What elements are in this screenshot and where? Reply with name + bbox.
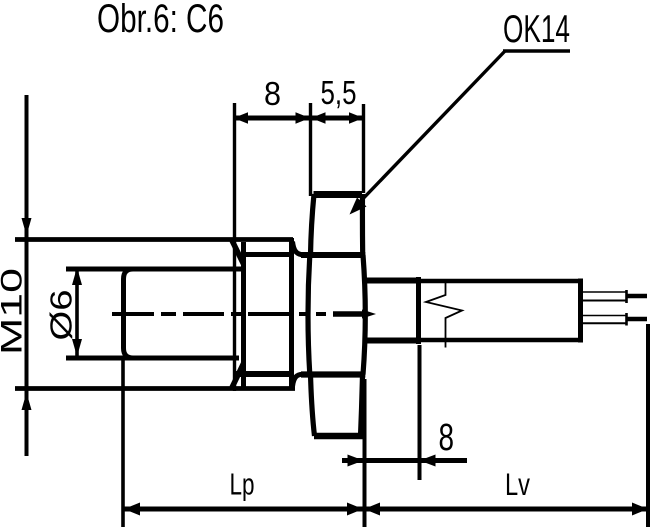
wire 1 end cap: [625, 290, 628, 303]
hex internal line top: [301, 252, 365, 258]
thread core bottom line (Ø6 extension): [66, 356, 239, 361]
dimension 8 (bottom right): [342, 345, 467, 480]
thread core top line (Ø6 extension): [66, 267, 241, 272]
svg-text:Lp: Lp: [230, 467, 255, 502]
dimensions Lp and Lv: [123, 324, 648, 527]
hex top band left edge: [311, 194, 315, 255]
wire 2 bottom line: [583, 322, 626, 324]
thread major OD line top (M10 extension): [15, 237, 293, 242]
wire 1 bottom line: [583, 300, 626, 302]
collar bottom inner chamfer line: [236, 371, 292, 377]
arrow 8b left (outside, points right): [348, 455, 364, 467]
svg-text:8: 8: [264, 75, 281, 112]
extension line right (hex right face): [362, 104, 365, 193]
hex top band right edge: [360, 194, 365, 255]
Ø6 arrow bottom (points down): [72, 339, 82, 357]
arrow Lv left (points left): [364, 503, 380, 516]
extension line thread left end: [121, 357, 125, 527]
arrow Lp right (points right): [347, 503, 363, 516]
dimension Ø6: [75, 270, 79, 356]
centerline arrowhead: [362, 310, 376, 319]
wire 2 bare stub: [627, 317, 647, 322]
break zigzag: [426, 279, 462, 348]
M10 arrow top (points down): [22, 218, 32, 236]
case bottom edge: [421, 338, 583, 342]
M10 dimension line: [25, 95, 29, 456]
dimension line 8 / 5,5: [234, 116, 365, 121]
OK14 leader arrowhead: [350, 198, 367, 215]
svg-text:Obr.6: C6: Obr.6: C6: [97, 0, 224, 41]
cylinder bottom edge: [364, 338, 421, 344]
wire 1 bare stub: [627, 294, 647, 299]
dimension line Lp Lv: [124, 507, 648, 512]
svg-text:Lv: Lv: [505, 466, 530, 502]
M10 arrow bottom (points up): [22, 393, 32, 411]
wire 1 top line: [583, 291, 626, 293]
leader OK14: [356, 51, 570, 206]
thread left end cap: [124, 269, 134, 358]
hex middle band right edge: [363, 255, 365, 375]
collar left edge: [241, 242, 246, 387]
centerline (axis): [112, 312, 364, 316]
hex internal line bottom: [301, 371, 365, 377]
collar right edge: [289, 238, 294, 390]
arrow Lp left (points left): [124, 503, 140, 516]
cylinder top edge: [364, 278, 421, 284]
svg-text:OK14: OK14: [503, 8, 570, 51]
dimension M10: [25, 95, 29, 456]
dimension line 8 bottom: [342, 458, 467, 463]
extension line middle (hex left face): [309, 103, 312, 196]
thread runout wedge top: [232, 241, 244, 265]
hex bottom band right edge: [361, 375, 363, 437]
wire 2 top line: [583, 315, 626, 317]
svg-text:Ø6: Ø6: [44, 290, 79, 341]
arrow Lv right (points right): [632, 503, 648, 516]
case top edge: [421, 279, 583, 283]
hex middle band left edge: [308, 255, 310, 375]
wire 2 end cap: [625, 313, 628, 326]
svg-text:M10: M10: [0, 268, 29, 355]
collar top inner chamfer line: [244, 252, 292, 257]
dimension 8 (top) and 5,5: [234, 103, 365, 391]
svg-text:5,5: 5,5: [321, 74, 357, 111]
Ø6 arrow top (points up): [72, 268, 82, 286]
neck curve top: [293, 242, 312, 255]
thread runout wedge bottom: [232, 364, 244, 388]
hex bottom edge: [314, 433, 365, 440]
arrow 8b right (outside, points left): [420, 455, 436, 467]
OK14 underline: [503, 49, 570, 52]
neck curve bottom: [293, 374, 312, 386]
hex bottom band left edge: [311, 375, 315, 437]
extension line wire end (Lv right): [646, 324, 650, 527]
svg-text:8: 8: [439, 417, 455, 459]
cylinder right edge: [416, 277, 421, 344]
arrow 5,5 left (points left): [311, 112, 326, 124]
Ø6 dimension line: [75, 270, 79, 356]
arrow 8 left (points left): [234, 112, 249, 124]
thread major OD line bottom (M10 extension): [15, 386, 295, 391]
extension line left (thread end): [233, 103, 236, 391]
arrow 8 right (points right at hex face): [296, 112, 311, 124]
OK14 leader line: [356, 51, 505, 206]
case right edge: [578, 279, 583, 343]
arrow 5,5 right (points right): [349, 112, 364, 124]
hex top edge: [314, 191, 363, 198]
extension line (cylinder right end): [418, 345, 422, 480]
extension line hex right face (shared Lp/Lv): [363, 379, 367, 527]
